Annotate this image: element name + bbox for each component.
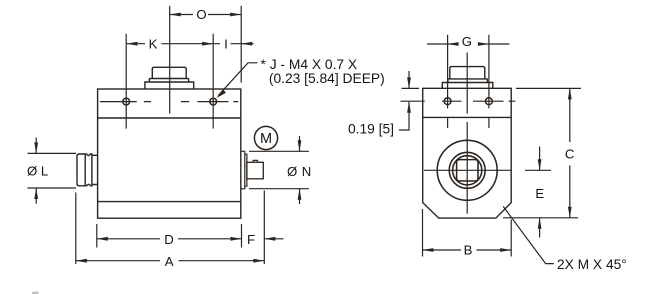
hole1 extension line vertical (125, 34, 127, 129)
dimension C (569, 88, 571, 217)
dim L bottom arrow (35, 188, 37, 204)
connector key bump (253, 160, 258, 162)
dimension D ext right (241, 224, 243, 248)
dimension 0.19 top arrow (408, 71, 410, 88)
square drive (457, 160, 478, 181)
leader to hole J (218, 63, 257, 96)
knob top step (152, 67, 186, 78)
dimension A ext right (263, 191, 265, 265)
dimension A (76, 260, 264, 262)
dimension E top arrow (539, 147, 541, 171)
svg-text:E: E (535, 186, 544, 201)
G ext line right (488, 35, 490, 109)
leader 2X M X 45 (503, 206, 554, 263)
dim N bottom arrow (299, 189, 301, 204)
svg-text:O: O (196, 7, 206, 22)
dimension K (127, 43, 214, 45)
knob middle step (149, 79, 188, 83)
G ext stub below seam left (447, 117, 449, 128)
svg-text:0.19 [5]: 0.19 [5] (348, 122, 394, 137)
connector base plate (241, 151, 245, 189)
dimension I line segments (213, 43, 253, 45)
dimension B (423, 249, 512, 251)
body-top ext line right (for C) (516, 87, 581, 89)
knob base step (145, 82, 194, 89)
svg-text:(0.23 [5.84] DEEP): (0.23 [5.84] DEEP) (269, 71, 385, 86)
dimension L ext bottom (28, 187, 77, 189)
boss mid circle (449, 152, 485, 188)
dim N top arrow (299, 136, 301, 151)
connector plug (247, 162, 263, 179)
faint bottom-left artifact (32, 292, 39, 294)
dimension L ext top (28, 152, 77, 154)
svg-text:I: I (224, 36, 228, 51)
dimension D (97, 238, 242, 240)
center extension line (left view) (169, 6, 171, 114)
screw hole J left (123, 98, 130, 105)
dimension N ext top (249, 150, 309, 152)
knob side step1 (top) (450, 67, 485, 79)
body-bottom ext line right (for C and E) (503, 217, 578, 219)
centerline ext for 0.19 (401, 100, 425, 102)
side body outline with chamfers (423, 88, 512, 218)
side flange seam line (423, 116, 512, 118)
boss outer circle (437, 140, 497, 200)
side centerline through holes (dashed) (442, 100, 515, 102)
svg-text:A: A (165, 254, 174, 269)
connector plate 2 (245, 154, 247, 186)
centerline dashed through flange holes (left view) (100, 101, 238, 103)
svg-text:F: F (247, 232, 255, 247)
side screw hole left (444, 98, 451, 105)
G ext stub below seam right (488, 117, 490, 128)
svg-text:Ø L: Ø L (27, 164, 48, 179)
hole2 extension line vertical (212, 34, 214, 129)
flange right-edge extension line (240, 6, 242, 83)
svg-text:M: M (260, 131, 272, 147)
G ext line left (447, 35, 449, 109)
svg-text:* J - M4 X 0.7 X: * J - M4 X 0.7 X (261, 57, 358, 72)
base plate seam (98, 201, 241, 203)
RIGHT VIEW (423, 67, 512, 219)
flange bottom seam (98, 117, 241, 119)
boss horizontal centerline (424, 169, 511, 171)
side center vertical line (466, 53, 468, 114)
top ext line for 0.19 (402, 87, 420, 89)
boss vertical centerline (466, 122, 468, 214)
svg-text:B: B (464, 242, 473, 257)
side screw hole right (486, 98, 493, 105)
svg-text:G: G (462, 34, 472, 49)
left shaft collar with groove dips (85, 154, 92, 186)
dimension E bottom arrow (539, 218, 541, 238)
dimension O (170, 14, 242, 16)
dimension D ext left (96, 224, 98, 248)
screw hole J right (210, 98, 217, 105)
svg-text:K: K (149, 36, 158, 51)
centerline ext right (for E) (525, 169, 551, 171)
dimension B ext left (422, 209, 424, 257)
dimension 0.19 bottom arrow + leader to text (399, 102, 409, 130)
dimension B ext right (510, 220, 512, 257)
dim L top arrow (35, 138, 37, 154)
dimension G (427, 43, 510, 45)
boss inner circle (453, 156, 482, 185)
callout M circle (254, 126, 277, 149)
svg-text:2X M X 45°: 2X M X 45° (557, 257, 627, 272)
left shaft cap (77, 154, 85, 186)
svg-text:Ø N: Ø N (287, 164, 312, 179)
left shaft neck (92, 155, 98, 184)
knob side step2 (448, 78, 488, 80)
dimension F right arrow (outside) (264, 238, 283, 240)
svg-text:C: C (565, 146, 575, 161)
dimension A ext left (75, 193, 77, 265)
svg-text:D: D (164, 232, 174, 247)
body outline (98, 89, 241, 218)
knob side step3 (wide plate) (442, 83, 493, 89)
dimension N ext bottom (249, 188, 309, 190)
